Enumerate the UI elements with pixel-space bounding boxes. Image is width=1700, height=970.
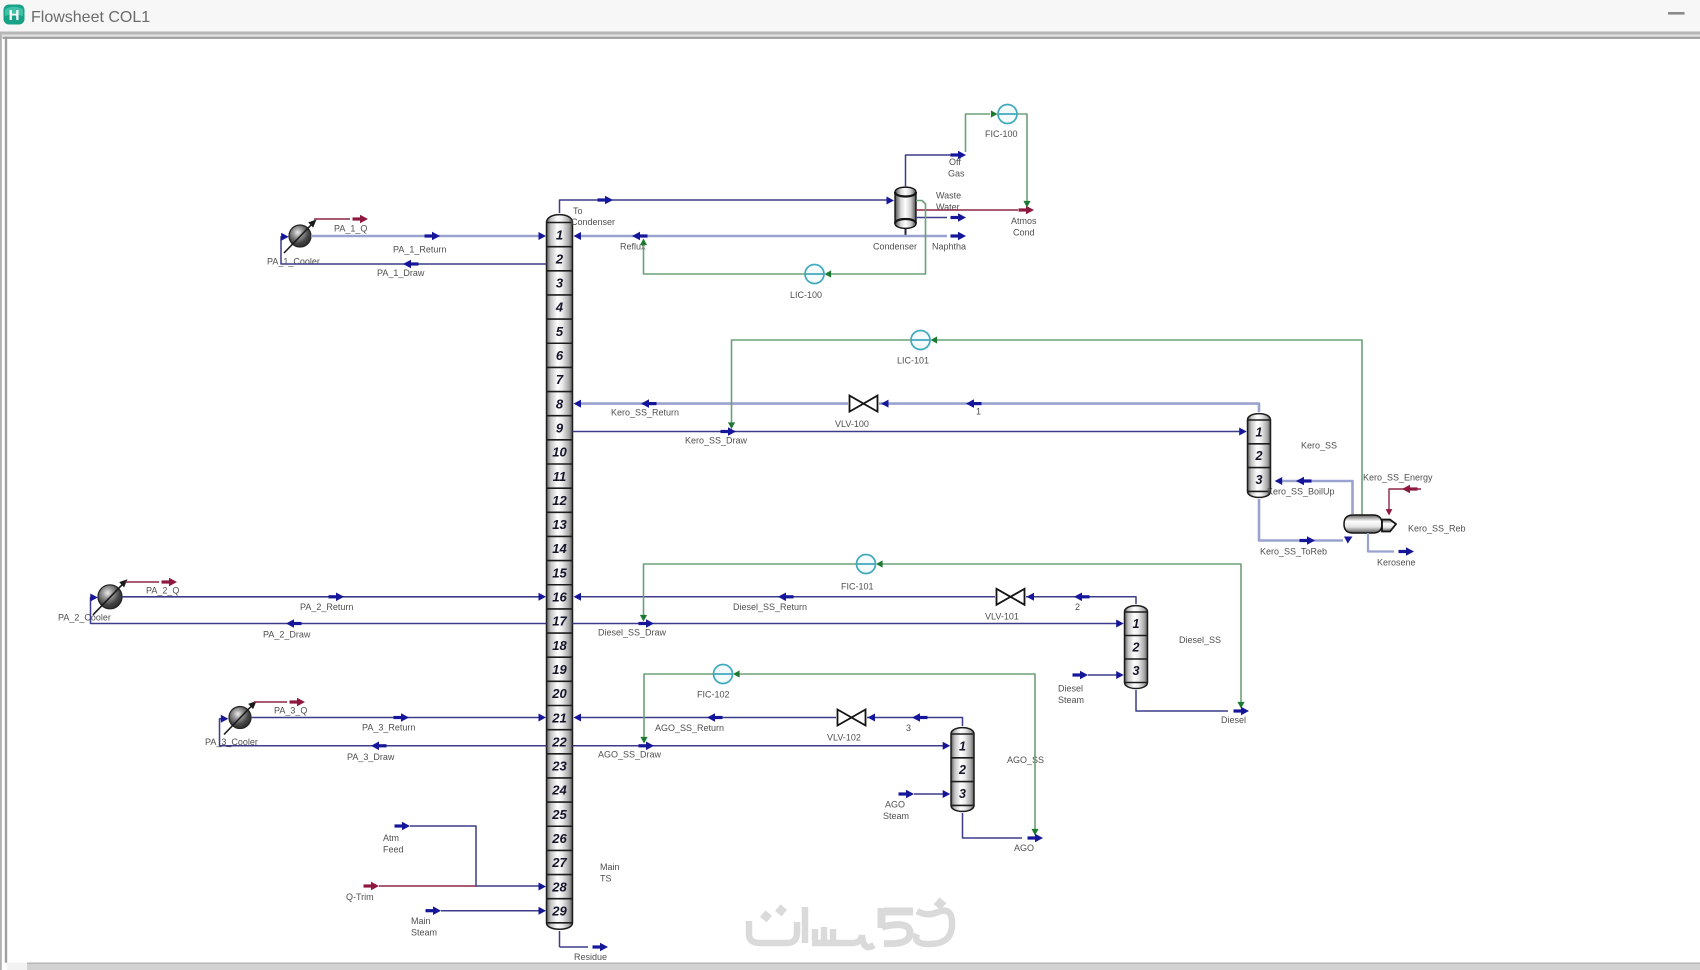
svg-text:6: 6 [556,348,564,363]
stream PA_3_Return [251,713,546,732]
svg-text:1: 1 [959,739,966,753]
stream PA_2_Return [122,593,546,613]
stream Main Steam [411,906,546,937]
svg-text:16: 16 [552,590,567,605]
svg-text:Kero_SS_ToReb: Kero_SS_ToReb [1260,547,1327,557]
column Diesel_SS stripper [1125,606,1148,689]
svg-text:Diesel: Diesel [1058,684,1083,694]
svg-text:21: 21 [551,710,566,725]
svg-text:Feed: Feed [383,845,404,855]
svg-text:Waste: Waste [936,191,961,201]
svg-text:PA_1_Return: PA_1_Return [393,245,446,255]
svg-text:Kero_SS: Kero_SS [1301,441,1337,451]
svg-text:15: 15 [552,565,567,580]
window title bar [0,0,1700,32]
svg-text:18: 18 [552,638,567,653]
signal line LIC-100 to Reflux [644,242,806,274]
stream Diesel (product) [1136,690,1249,725]
svg-text:PA_2_Draw: PA_2_Draw [263,630,311,640]
svg-text:Kero_SS_Energy: Kero_SS_Energy [1363,473,1433,483]
condenser vessel [873,187,917,251]
svg-text:26: 26 [551,831,567,846]
stream Kero_SS_Draw [573,427,1247,445]
stream PA_3_Draw [220,715,547,762]
svg-text:Steam: Steam [883,811,909,821]
svg-text:FIC-101: FIC-101 [841,582,874,592]
svg-text:7: 7 [556,372,564,387]
svg-text:Off: Off [949,157,961,167]
stream Kerosene [1368,533,1416,568]
svg-text:FIC-100: FIC-100 [985,129,1018,139]
stream Off Gas [906,151,967,187]
valve VLV-101 [997,589,1011,605]
svg-text:To: To [573,206,583,216]
svg-text:PA_1_Cooler: PA_1_Cooler [267,257,320,267]
column Kero_SS stripper [1248,414,1271,498]
svg-text:3: 3 [906,723,911,733]
svg-text:Main: Main [411,916,431,926]
svg-text:H: H [9,7,20,24]
svg-text:2: 2 [958,763,966,777]
bottom horizontal scrollbar [7,963,1700,970]
stream Atm Feed [383,822,476,886]
svg-text:29: 29 [551,903,567,918]
column AGO_SS stripper [951,728,974,812]
svg-text:Naphtha: Naphtha [932,242,966,252]
valve VLV-102 [838,710,852,726]
stream Reflux [574,232,906,252]
energy stream Q-Trim [346,882,477,902]
stream 3 (AGO_SS overhead) [867,713,963,733]
svg-text:3: 3 [556,276,564,291]
svg-text:AGO_SS_Draw: AGO_SS_Draw [598,750,662,760]
stream PA_1_Draw [281,233,547,278]
controller FIC-100 [998,105,1017,124]
signal line AGO flow to FIC-102 [737,674,1035,833]
controller LIC-101 [911,331,930,350]
svg-text:AGO: AGO [1014,843,1034,853]
valve VLV-100 [850,396,864,412]
energy stream PA_1_Q [314,215,368,234]
column Main TS tower [547,215,573,930]
svg-text:2: 2 [1075,602,1080,612]
svg-text:LIC-100: LIC-100 [790,290,822,300]
svg-text:23: 23 [551,759,567,774]
svg-text:Kero_SS_Return: Kero_SS_Return [611,408,679,418]
svg-text:FIC-102: FIC-102 [697,690,730,700]
svg-text:Gas: Gas [948,169,965,179]
svg-text:1: 1 [556,227,563,242]
HYSYS icon [4,5,25,25]
svg-text:TS: TS [600,874,612,884]
energy stream Atmos Cond [916,206,1037,238]
stream AGO Steam [883,790,950,821]
svg-text:Flowsheet COL1: Flowsheet COL1 [31,9,150,26]
svg-text:PA_3_Draw: PA_3_Draw [347,752,395,762]
svg-text:27: 27 [551,855,567,870]
stream Naphtha [906,232,967,252]
stream Diesel_SS_Return [574,593,996,613]
svg-text:2: 2 [555,251,564,266]
svg-text:Kero_SS_BoilUp: Kero_SS_BoilUp [1267,487,1335,497]
signal line Off Gas to FIC-100 [966,114,991,152]
svg-text:Atm: Atm [383,833,399,843]
svg-text:AGO_SS_Return: AGO_SS_Return [655,723,724,733]
stream Kero_SS_BoilUp [1267,477,1353,514]
svg-text:PA_2_Cooler: PA_2_Cooler [58,613,111,623]
energy stream PA_2_Q [125,578,179,596]
svg-text:Steam: Steam [1058,695,1084,705]
svg-text:Residue: Residue [574,952,607,962]
svg-text:5: 5 [556,324,564,339]
svg-text:10: 10 [552,445,567,460]
svg-text:8: 8 [556,396,564,411]
svg-text:28: 28 [551,879,567,894]
stream Kero_SS_ToReb [1259,499,1354,557]
svg-text:VLV-102: VLV-102 [827,733,861,743]
stream PA_2_Draw [90,594,546,640]
energy stream PA_3_Q [254,698,307,716]
svg-text:PA_3_Return: PA_3_Return [362,723,415,733]
svg-text:11: 11 [553,469,567,484]
svg-text:25: 25 [551,807,567,822]
svg-text:Diesel_SS_Return: Diesel_SS_Return [733,602,807,612]
svg-text:Condenser: Condenser [571,217,615,227]
svg-text:Kero_SS_Draw: Kero_SS_Draw [685,436,748,446]
svg-text:22: 22 [551,734,567,749]
signal line condenser level to LIC-100 [828,201,926,275]
svg-text:AGO_SS: AGO_SS [1007,755,1044,765]
stream Kero_SS_Return [574,399,849,417]
svg-text:Atmos: Atmos [1011,216,1037,226]
column bottom stem [559,931,561,947]
svg-text:Steam: Steam [411,928,437,938]
svg-text:24: 24 [551,783,567,798]
svg-text:12: 12 [552,493,567,508]
signal line LIC-101 to Kero_SS_Draw [732,340,912,424]
stream Diesel Steam [1058,671,1124,705]
svg-text:4: 4 [555,300,564,315]
stream Waste Water [916,191,966,222]
signal line FIC-100 to Atmos Cond [1017,114,1027,201]
svg-text:Kerosene: Kerosene [1377,558,1416,568]
controller FIC-102 [714,665,733,684]
svg-text:PA_2_Q: PA_2_Q [146,586,179,596]
controller FIC-101 [857,555,876,574]
svg-text:LIC-101: LIC-101 [897,356,929,366]
svg-text:19: 19 [552,662,567,677]
reboiler Kero_SS_Reb [1344,515,1466,534]
watermark khamsat logo [749,897,952,947]
stream Residue [560,943,609,962]
svg-text:20: 20 [551,686,567,701]
svg-text:Diesel_SS_Draw: Diesel_SS_Draw [598,628,667,638]
stream To Condenser [560,196,895,227]
svg-text:Diesel: Diesel [1221,715,1246,725]
cooler PA_3_Cooler [229,707,251,729]
signal line FIC-101 to Diesel_SS_Draw [644,564,857,617]
signal line Diesel flow to FIC-101 [880,564,1241,706]
stream AGO_SS_Draw [573,742,951,760]
energy stream Kero_SS_Energy [1363,473,1433,516]
stream 2 (Diesel_SS overhead) [1026,593,1136,613]
svg-text:PA_1_Q: PA_1_Q [334,224,367,234]
svg-text:VLV-100: VLV-100 [835,419,869,429]
stream Diesel_SS_Draw [573,619,1124,637]
svg-text:13: 13 [552,517,567,532]
svg-text:1: 1 [1133,617,1140,631]
minimize button [1668,12,1685,15]
svg-text:Condenser: Condenser [873,242,917,252]
svg-text:9: 9 [556,420,564,435]
svg-text:AGO: AGO [885,800,905,810]
controller LIC-100 [805,265,824,284]
svg-text:1: 1 [976,407,981,417]
svg-text:3: 3 [959,787,966,801]
svg-text:Kero_SS_Reb: Kero_SS_Reb [1408,524,1466,534]
svg-text:2: 2 [1255,449,1263,463]
signal line reboiler level to LIC-101 [934,340,1362,515]
svg-text:3: 3 [1133,664,1140,678]
svg-text:Main: Main [600,862,620,872]
svg-text:VLV-101: VLV-101 [985,612,1019,622]
svg-text:17: 17 [552,614,567,629]
stream PA_1_Return [311,232,546,255]
feed line into tray 28 [476,883,546,891]
svg-text:PA_2_Return: PA_2_Return [300,602,353,612]
stream AGO_SS_Return [574,713,837,733]
svg-text:3: 3 [1256,473,1263,487]
svg-text:1: 1 [1256,425,1263,439]
svg-text:2: 2 [1132,641,1140,655]
svg-text:Q-Trim: Q-Trim [346,892,374,902]
svg-text:Diesel_SS: Diesel_SS [1179,635,1221,645]
cooler PA_1_Cooler [289,225,311,247]
cooler PA_2_Cooler [98,585,122,609]
svg-text:Cond: Cond [1013,228,1035,238]
svg-text:14: 14 [552,541,567,556]
svg-text:PA_3_Q: PA_3_Q [274,706,307,716]
signal line FIC-102 to AGO_SS_Draw [644,674,714,739]
svg-text:PA_1_Draw: PA_1_Draw [377,268,425,278]
stream AGO (product) [963,813,1044,853]
stream 1 (Kero_SS overhead) [879,399,1259,416]
